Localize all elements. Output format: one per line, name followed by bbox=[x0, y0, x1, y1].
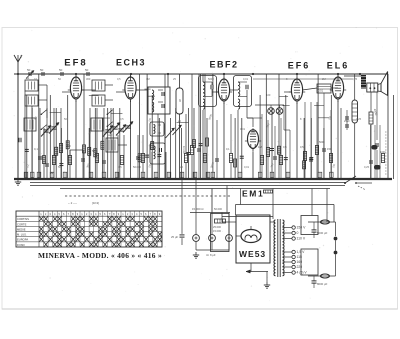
svg-text:CORTISS: CORTISS bbox=[17, 217, 29, 221]
svg-text:0,25: 0,25 bbox=[352, 77, 358, 81]
svg-text:5000: 5000 bbox=[208, 77, 214, 81]
svg-text:EUROPA: EUROPA bbox=[17, 238, 28, 242]
svg-text:1000: 1000 bbox=[380, 151, 386, 154]
svg-text:EM1: EM1 bbox=[242, 189, 264, 199]
svg-text:5000 μF: 5000 μF bbox=[317, 231, 328, 235]
svg-text:WE53: WE53 bbox=[239, 249, 266, 259]
svg-text:15.000: 15.000 bbox=[213, 229, 221, 233]
svg-text:0,1: 0,1 bbox=[226, 147, 230, 151]
svg-text:0,1: 0,1 bbox=[34, 147, 38, 151]
svg-text:10.000: 10.000 bbox=[182, 146, 185, 154]
svg-text:EBF2: EBF2 bbox=[209, 60, 238, 70]
svg-text:0,01: 0,01 bbox=[243, 77, 249, 81]
svg-text:25 μF: 25 μF bbox=[171, 235, 178, 239]
svg-text:M. LUS.: M. LUS. bbox=[17, 233, 27, 237]
svg-text:50.000: 50.000 bbox=[214, 207, 222, 211]
svg-text:a1: a1 bbox=[26, 76, 30, 80]
svg-text:MEDIE: MEDIE bbox=[17, 227, 26, 231]
svg-text:0,5: 0,5 bbox=[300, 145, 304, 149]
svg-text:0: 0 bbox=[297, 231, 299, 235]
svg-text:300: 300 bbox=[86, 77, 91, 81]
svg-text:~ 2 ----: ~ 2 ---- bbox=[68, 201, 77, 205]
svg-text:110 V: 110 V bbox=[297, 237, 306, 241]
svg-text:0,5: 0,5 bbox=[118, 165, 122, 169]
svg-text:CORTE: CORTE bbox=[17, 222, 27, 226]
svg-text:[1K3]: [1K3] bbox=[92, 201, 99, 205]
svg-text:EF6: EF6 bbox=[288, 61, 311, 71]
svg-text:0,5: 0,5 bbox=[283, 145, 287, 149]
svg-text:8000 μF: 8000 μF bbox=[317, 282, 328, 286]
svg-text:0,01: 0,01 bbox=[240, 127, 246, 131]
svg-text:50.000: 50.000 bbox=[133, 165, 141, 169]
svg-text:0,5: 0,5 bbox=[117, 77, 121, 81]
svg-text:0,01: 0,01 bbox=[244, 165, 250, 169]
svg-text:0,01: 0,01 bbox=[318, 89, 324, 93]
svg-text:0,25: 0,25 bbox=[364, 165, 370, 169]
svg-text:50: 50 bbox=[85, 68, 89, 72]
svg-text:50: 50 bbox=[40, 68, 44, 72]
svg-text:2M: 2M bbox=[322, 77, 326, 81]
svg-text:25μF: 25μF bbox=[344, 120, 350, 123]
svg-text:25.000: 25.000 bbox=[213, 225, 221, 229]
svg-text:4× 8 μF: 4× 8 μF bbox=[206, 253, 216, 257]
svg-text:0,1: 0,1 bbox=[34, 77, 38, 81]
svg-text:220: 220 bbox=[297, 265, 303, 269]
svg-text:160: 160 bbox=[297, 260, 303, 264]
svg-text:ECH3: ECH3 bbox=[116, 58, 146, 68]
svg-text:MINERVA - MODD. « 406 » « 416: MINERVA - MODD. « 406 » « 416 » bbox=[38, 251, 162, 260]
svg-text:0,5: 0,5 bbox=[120, 117, 124, 121]
svg-text:15.000 Ω: 15.000 Ω bbox=[192, 207, 203, 211]
svg-text:1M: 1M bbox=[146, 77, 150, 81]
svg-text:100: 100 bbox=[266, 93, 271, 97]
svg-text:0,25: 0,25 bbox=[356, 117, 362, 121]
svg-text:EL6: EL6 bbox=[327, 61, 350, 71]
svg-text:50: 50 bbox=[59, 68, 63, 72]
svg-text:EF8: EF8 bbox=[64, 58, 87, 69]
svg-text:FONO: FONO bbox=[17, 243, 25, 247]
svg-text:50: 50 bbox=[27, 68, 31, 72]
svg-text:osc: osc bbox=[108, 133, 113, 137]
svg-text:4 (5) V: 4 (5) V bbox=[297, 271, 308, 275]
